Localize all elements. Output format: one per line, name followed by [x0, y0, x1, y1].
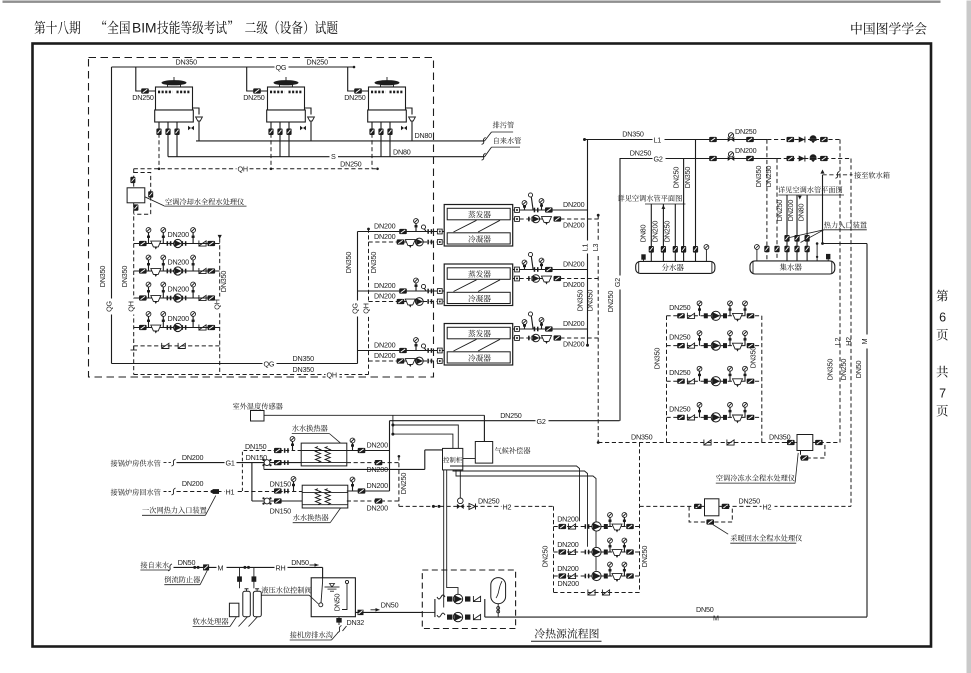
svg-text:H1: H1 [226, 488, 235, 497]
svg-text:DN80: DN80 [797, 204, 806, 222]
union dots softener [243, 566, 246, 569]
port evap supply CH1 [515, 208, 520, 213]
svg-text:DN350: DN350 [749, 347, 758, 369]
svg-text:DN200: DN200 [735, 146, 757, 155]
svg-text:DN250: DN250 [775, 200, 784, 222]
svg-text:DN250: DN250 [500, 411, 522, 420]
break tap pipe [482, 153, 486, 160]
gauge RB2 b [622, 538, 627, 552]
svg-text:DN350: DN350 [631, 433, 653, 442]
valve LB4 discharge [747, 415, 755, 420]
svg-text:DN200: DN200 [563, 319, 585, 328]
upper valve collector riser x796 [794, 235, 799, 242]
valves on CT3 outlets [369, 129, 374, 136]
svg-text:QG: QG [105, 301, 114, 312]
pipe cooling pump row 4 [134, 327, 220, 329]
label L3 trunk [594, 241, 604, 254]
pipe L3 chilled return trunk [597, 215, 599, 442]
pipe makeup M horizontal top [823, 243, 868, 245]
svg-text:DN250: DN250 [669, 303, 691, 312]
bypass chilled treatment [801, 443, 825, 459]
check valve RB3 [568, 573, 575, 579]
svg-text:DN200: DN200 [374, 291, 396, 300]
valve on distributor riser x674 [673, 246, 678, 253]
valve cond supply CH2 [399, 288, 407, 293]
flanges cond return CH1 [427, 240, 429, 245]
flanges P3 [167, 296, 169, 301]
compensator to G2 [483, 415, 485, 441]
valve above treatment [130, 177, 135, 183]
svg-text:DN250: DN250 [630, 149, 652, 158]
svg-text:DN350: DN350 [344, 252, 353, 274]
tower CT2 return dashed drop [270, 134, 272, 169]
valve P2 discharge [208, 268, 216, 273]
strainer LB3 [733, 379, 743, 387]
flanges HX1 bot left [284, 460, 286, 465]
pipe cond return CH3 [369, 360, 445, 362]
pipe G2 main horizontal [390, 420, 620, 422]
flanges cond supply CH2 [427, 289, 429, 294]
junction dots H2 [432, 505, 435, 508]
pipe cooling pump row 1 [134, 243, 220, 245]
valve P4 suction [139, 325, 147, 330]
gauge P3 mid [161, 282, 166, 298]
valve HX1 right [358, 448, 366, 453]
distributor 分水器 body [636, 261, 715, 273]
label QH bottom [326, 371, 340, 379]
right cluster manifold right [761, 316, 763, 443]
pipe drop to tower CT1 [136, 67, 156, 91]
water treatment device (cooling) box [127, 188, 145, 203]
valve HX2 return [375, 498, 383, 503]
tank drain [338, 617, 340, 625]
pipe H2 left [399, 505, 554, 507]
gauge on distributor [704, 245, 709, 250]
small valve RB1 [604, 524, 608, 529]
tank overflow pipe [342, 584, 347, 610]
flanges HX1 top left [284, 448, 286, 453]
label M tap line [217, 563, 227, 571]
pump LB1 (chilled water pump) [711, 311, 720, 320]
small valve RB3 [604, 574, 608, 579]
gauge P2 discharge [191, 255, 196, 271]
pipe evap return CH2 [513, 278, 599, 280]
svg-text:QG: QG [264, 360, 275, 369]
port cond return CH1 [437, 240, 442, 245]
pipe chilled pump row 4 [667, 416, 762, 418]
valve cond supply CH3 [399, 348, 407, 353]
port evap supply CH3 [515, 327, 520, 332]
svg-text:DN350: DN350 [754, 166, 763, 188]
balance valve H2 ext [810, 154, 817, 162]
valve RB1 discharge [626, 524, 634, 529]
valve L1 header a [709, 137, 717, 142]
valve evap return CH3 [554, 335, 562, 340]
flex conn BP1 [437, 595, 445, 599]
svg-text:DN350: DN350 [576, 290, 585, 312]
small valve LB1 a [704, 313, 708, 318]
pipe cond supply CH2 [358, 290, 445, 292]
pressurization unit dashed box [422, 570, 515, 629]
label RH [275, 563, 288, 571]
tower CT2 outlet pipes [270, 122, 272, 134]
check valve LB1 [687, 313, 694, 319]
pipe evap return CH1 [513, 218, 599, 220]
lower valve collector riser x776 [774, 246, 779, 253]
valve P2 suction [139, 268, 147, 273]
riser DN350 to L1 [695, 140, 697, 262]
label S [330, 152, 339, 161]
check valve BP1 [473, 596, 480, 602]
svg-text:DN250: DN250 [640, 546, 649, 568]
gauge HX2 right [350, 477, 355, 491]
label L1 header [653, 136, 665, 144]
climate compensator 气候补偿器 [475, 442, 492, 464]
chiller CH1 diagonals [454, 220, 477, 232]
evaporator CH3 [447, 327, 510, 339]
svg-text:DN350: DN350 [293, 354, 315, 363]
pump LB3 (chilled water pump) [711, 377, 720, 386]
svg-text:DN250: DN250 [344, 93, 366, 102]
pipe QG bottom horizontal [112, 363, 358, 365]
svg-text:DN250: DN250 [541, 546, 550, 568]
valve on distributor riser x695 [693, 246, 698, 253]
check valve LB2 [687, 343, 694, 349]
break drain pipe [482, 137, 486, 144]
gauge P4 suction [146, 312, 151, 328]
small valve LB3 b [723, 379, 727, 384]
pump BP2 (pressurization pump) [453, 612, 462, 621]
pipe tap water M line [174, 566, 323, 568]
valve RB1 suction [559, 524, 567, 529]
svg-text:DN200: DN200 [182, 453, 204, 462]
pipe cooling pumps bypass [134, 345, 220, 347]
check valve RB1 [568, 524, 575, 530]
svg-text:DN50: DN50 [291, 558, 309, 567]
signal line to cabinet a [393, 425, 458, 448]
label G1 [225, 459, 237, 467]
svg-text:DN350: DN350 [683, 167, 692, 189]
pipe DN250 return vertical [398, 456, 400, 506]
pump cond CH2 [415, 298, 423, 306]
label QG bottom [263, 360, 277, 368]
valve BP1 out [465, 596, 470, 601]
page number vertical 第6页共7页 [936, 290, 947, 302]
pump evap CH1 [532, 215, 540, 223]
flanges cond supply CH3 [427, 348, 429, 353]
svg-text:G2: G2 [654, 155, 663, 164]
sheet title left [34, 21, 80, 34]
tower CT3 outlet pipes [371, 122, 373, 134]
arrow RH [310, 564, 319, 566]
svg-text:S: S [331, 152, 336, 161]
chiller CH3 diagonals [454, 339, 477, 351]
valve P1 discharge [208, 241, 216, 246]
label G2 main [536, 417, 549, 425]
gauge HX1 right [350, 438, 355, 450]
svg-text:DN200: DN200 [374, 281, 396, 290]
check valves right bypass [704, 440, 711, 446]
valve RB2 discharge [626, 549, 634, 554]
svg-text:L1: L1 [654, 136, 662, 145]
svg-text:QH: QH [238, 165, 248, 174]
pipe makeup to soft tank [822, 175, 824, 244]
svg-text:RH: RH [276, 564, 286, 573]
label 接机房排水沟 [290, 631, 333, 638]
pump P3 (cooling water pump) [170, 296, 174, 299]
pipe cooling pump row 3 [134, 297, 220, 299]
valve cond return CH3 [397, 358, 405, 363]
label 空调冷冻水全程水处理仪 [795, 453, 798, 483]
pressu manifold left [434, 599, 436, 617]
label QH tower header [237, 165, 250, 173]
strainer P4 [151, 325, 161, 333]
chiller unit CH1 box [444, 205, 513, 247]
gauge2 evap supply CH1 [539, 199, 544, 210]
strainer cond CH1 [405, 240, 415, 248]
header end tick [353, 66, 356, 69]
pump BP1 (pressurization pump) [453, 594, 462, 603]
valve P3 discharge [208, 295, 216, 300]
signal line to cabinet b [393, 434, 453, 448]
svg-text:DN250: DN250 [735, 127, 757, 136]
pipe cooling pump row 2 [134, 270, 220, 272]
tower CT2 overflow [305, 108, 312, 115]
pump evap CH3 [532, 334, 540, 342]
pipe QH bottom horizontal [134, 374, 369, 376]
svg-text:DN250: DN250 [839, 359, 848, 381]
svg-text:G2: G2 [537, 417, 546, 426]
pipe bypass DN200 to cabinet [263, 463, 265, 470]
riser DN80 distributor [650, 204, 652, 261]
pipe G1 boiler supply [177, 462, 302, 464]
pressu manifold right [484, 599, 486, 617]
system boundary dashed box (cooling water) [89, 58, 434, 378]
strainer P1 [151, 241, 161, 249]
valve LB1 discharge [747, 313, 755, 318]
valve HX2 bot left [274, 498, 282, 503]
check valve P3 [199, 295, 206, 301]
valve L1 header b [746, 137, 754, 142]
pipe L1 chilled supply header [585, 139, 768, 141]
wire cabinet to H2 valve [459, 470, 461, 501]
cooling tower CT3 body [369, 87, 406, 110]
pipe L1 chilled supply trunk [587, 140, 589, 346]
valve cond return CH1 [397, 239, 405, 244]
pipe evap supply CH3 [513, 328, 588, 330]
pipe DN350 cooling supply header [112, 66, 355, 68]
chiller CH2 diagonals [454, 280, 477, 292]
small flanges RB1 [585, 524, 587, 529]
pipe cond supply CH3 [358, 350, 445, 352]
svg-text:L2: L2 [833, 338, 842, 346]
mid cluster manifold right [639, 443, 641, 593]
tower CT1 return dashed drop [158, 134, 160, 169]
valve H2 ext b [820, 156, 828, 161]
valve on CT3 inlet [354, 88, 362, 93]
evaporator CH1 [447, 208, 510, 220]
svg-text:DN350: DN350 [98, 266, 107, 288]
pipe L2 vertical [839, 140, 841, 443]
gauge LB3 c [743, 366, 748, 381]
label 接自来水 [141, 562, 169, 569]
tower CT1 outlet pipes [158, 122, 160, 134]
tank outlet right [355, 611, 422, 613]
header line to AC plan (coll) [778, 194, 844, 196]
svg-text:M: M [218, 564, 224, 573]
gauge LB4 a [697, 403, 702, 418]
valve on distributor riser x662 [661, 246, 666, 253]
riser DN250 collector [786, 195, 788, 261]
svg-text:DN200: DN200 [374, 351, 396, 360]
pipe right cluster bypass [598, 442, 797, 444]
chilled water treatment box 空调冷冻水全程水处理仪 [797, 435, 813, 451]
svg-text:DN250: DN250 [399, 473, 408, 495]
condenser CH1 [447, 233, 510, 244]
svg-text:DN200: DN200 [650, 221, 659, 243]
cooling tower CT2 body [268, 87, 305, 110]
valve evap return CH2 [554, 276, 562, 281]
svg-text:DN80: DN80 [639, 225, 648, 243]
label QH downcomer [129, 299, 139, 315]
gauge P1 mid [161, 228, 166, 244]
HX1 interior lines [301, 450, 347, 452]
thermometer cond supply CH3 [421, 344, 426, 351]
thermometer evap supply CH3 [528, 312, 533, 329]
valve LB1 suction [677, 313, 685, 318]
port evap supply CH2 [515, 267, 520, 272]
svg-text:QH: QH [127, 301, 136, 311]
small valve LB4 b [723, 415, 727, 420]
svg-text:DN200: DN200 [374, 222, 396, 231]
heating water treatment box 采暖回水全程水处理仪 [705, 499, 719, 516]
svg-text:M: M [713, 613, 719, 622]
pipe evap supply CH1 [513, 209, 588, 211]
valves on CT2 outlets [268, 129, 273, 136]
svg-text:L3: L3 [591, 244, 600, 252]
pipe drop to tower CT3 [348, 67, 369, 91]
valve RB2 suction [559, 549, 567, 554]
strainer LB1 [733, 313, 743, 321]
valve HX1 bot left [274, 460, 282, 465]
pipe L1 header dashed continuation L2 [767, 139, 840, 141]
flanges cond return CH3 [427, 359, 429, 364]
port evap return CH3 [515, 336, 520, 341]
svg-text:DN350: DN350 [653, 348, 662, 370]
gauge P3 discharge [191, 282, 196, 298]
label G2 header [653, 155, 666, 163]
pipe chilled pump row 3 [667, 380, 762, 382]
gauge RB3 a [608, 562, 613, 576]
valves heating treatment [694, 504, 702, 509]
svg-text:DN350: DN350 [219, 271, 228, 293]
pipe mid cluster bypass [554, 592, 640, 594]
flanges P1 [167, 241, 169, 246]
label G2 trunk [616, 276, 626, 290]
riser DN250 collector dashed [776, 159, 778, 261]
drawing title 冷热源流程图 [535, 628, 599, 638]
wire cabinet to pump box a [443, 470, 445, 608]
pipe HX2 out to G2 [347, 490, 390, 492]
valve G2 header b [746, 156, 754, 161]
valve L2 ext b [820, 137, 828, 142]
tank water level mark [325, 586, 340, 588]
pipe heating pump row 3 [554, 575, 640, 577]
check valves bypass [162, 343, 169, 349]
check valve H2 [469, 504, 476, 510]
water-water heat exchanger HX1 box [301, 443, 347, 466]
gauge P2 mid [161, 255, 166, 271]
svg-text:DN250: DN250 [606, 291, 615, 313]
svg-text:DN200: DN200 [367, 481, 389, 490]
gauge RB3 b [622, 562, 627, 576]
pipe QH tower return header [134, 168, 378, 170]
pipe QG condenser supply trunk [357, 232, 359, 364]
svg-text:DN50: DN50 [381, 601, 399, 610]
gauge P4 discharge [191, 312, 196, 328]
svg-text:DN200: DN200 [563, 340, 585, 349]
svg-text:DN250: DN250 [764, 166, 773, 188]
svg-text:DN200: DN200 [563, 260, 585, 269]
strainer cond CH2 [405, 299, 415, 307]
svg-text:DN80: DN80 [393, 147, 411, 156]
valve on distributor riser x650 [649, 246, 654, 253]
flanges P2 [167, 269, 169, 274]
svg-text:DN250: DN250 [132, 93, 154, 102]
condenser CH3 [447, 352, 510, 363]
lower valve collector riser x796 [794, 246, 799, 253]
pipe HX2 return dashed [347, 500, 399, 502]
pipe H2 vertical [850, 159, 852, 507]
svg-text:DN50: DN50 [696, 605, 714, 614]
gauge LB1 a [697, 301, 702, 316]
svg-text:M: M [860, 338, 869, 344]
valve RB3 discharge [626, 573, 634, 578]
valve BP2 out [465, 615, 470, 620]
labels L2 H2 M verticals [836, 335, 846, 349]
sheet title right 中国图学学会 [851, 22, 926, 34]
strainer LB2 [733, 343, 743, 351]
riser DN80 collector [806, 195, 808, 261]
port cond return CH2 [437, 299, 442, 304]
svg-text:DN200: DN200 [558, 579, 580, 588]
dirt separator G1b [264, 498, 270, 504]
port cond supply CH2 [437, 289, 442, 294]
drain plug distributor [641, 254, 645, 259]
softener feed drops [239, 567, 241, 588]
flanges evap supply CH1 [534, 208, 536, 213]
valve P4 discharge [208, 325, 216, 330]
valve on distributor riser x683 [681, 246, 686, 253]
check valves mid bypass [588, 590, 595, 596]
svg-text:DN250: DN250 [340, 160, 362, 169]
label 液压水位控制阀 [262, 586, 312, 593]
pipe HX1 return to H1 [242, 451, 301, 492]
small valve LB1 b [723, 313, 727, 318]
pump P1 (cooling water pump) [170, 242, 174, 245]
svg-text:DN50: DN50 [854, 361, 863, 379]
valve BP2 [447, 615, 452, 620]
tower CT1 overflow [193, 108, 200, 115]
valve cond return CH2 [397, 299, 405, 304]
valve HX2 top left [274, 488, 282, 493]
strainer RB3 [612, 574, 622, 582]
svg-text:H2: H2 [763, 502, 772, 511]
gauge LB3 b [728, 366, 733, 381]
check valve H2 ext [799, 156, 805, 162]
pipe drop to tower CT2 [247, 67, 268, 91]
svg-text:DN200: DN200 [557, 564, 579, 573]
